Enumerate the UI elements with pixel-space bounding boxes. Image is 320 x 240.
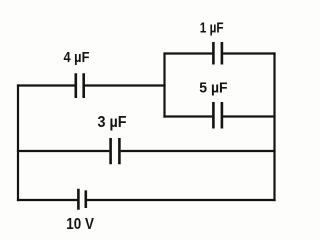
wire: right vertical branch [273, 52, 275, 201]
svg-text:3 µF: 3 µF [98, 114, 127, 131]
wire: top branch (1uF) [165, 52, 276, 54]
wire: bottom horizontal (battery branch) [17, 199, 276, 201]
capacitor C4 3uF plates [111, 138, 120, 164]
svg-text:5 µF: 5 µF [199, 80, 227, 97]
wire: middle branch of box (5uF) [163, 115, 275, 117]
battery V1 plates [78, 189, 85, 210]
svg-text:1 µF: 1 µF [200, 19, 224, 36]
wire: top-left horizontal (4uF branch) [17, 84, 166, 86]
svg-text:10 V: 10 V [66, 216, 94, 233]
capacitor C1 4uF plates [76, 73, 84, 98]
capacitor C2 1uF plates [213, 42, 222, 65]
capacitor C3 5uF plates [213, 102, 222, 129]
svg-text:4 µF: 4 µF [64, 49, 90, 66]
wire: parallel box left vertical [163, 52, 165, 117]
wire: left vertical branch [17, 84, 19, 201]
wire: middle horizontal (3uF branch) [17, 150, 276, 152]
